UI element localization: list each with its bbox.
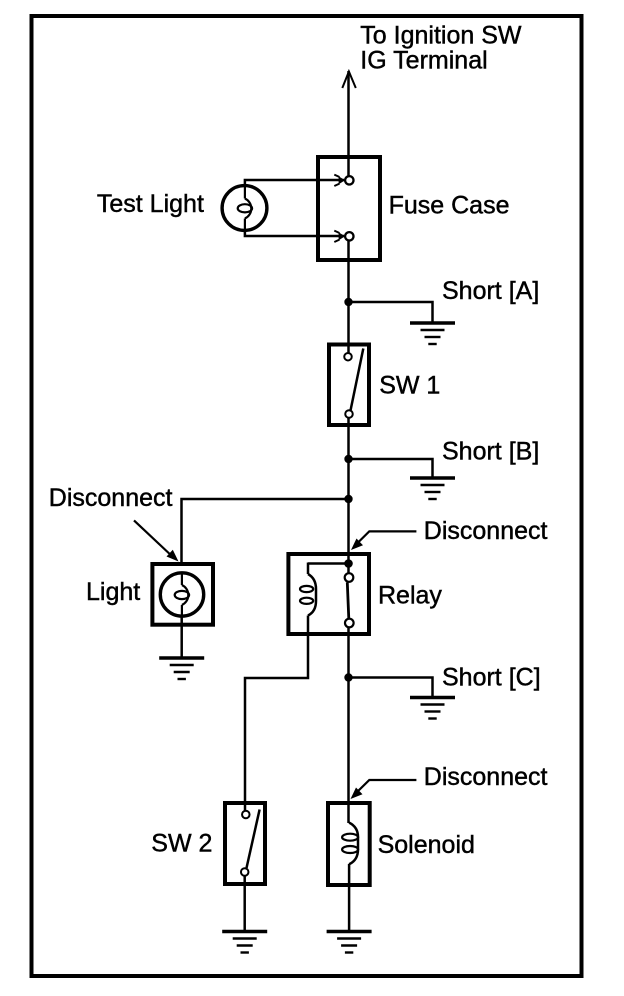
switch SW2 box [225, 803, 265, 884]
svg-text:IG Terminal: IG Terminal [360, 47, 487, 75]
relay K1 box [288, 554, 369, 634]
lamp DS1 Test Light [222, 186, 267, 231]
wire relay junction to coil [308, 562, 349, 565]
arrow Disconnect to Light wire [134, 520, 179, 561]
svg-text:Fuse Case: Fuse Case [389, 192, 510, 220]
svg-text:Short [B]: Short [B] [442, 438, 539, 466]
svg-text:SW 2: SW 2 [151, 830, 212, 858]
relay K1 internal junction dot [344, 559, 353, 568]
ground Solenoid [327, 932, 372, 953]
node C junction dot [344, 673, 352, 681]
wire test light bottom lead to fuse terminal 2 [245, 230, 344, 236]
wire node A to ground A [349, 302, 433, 323]
svg-text:Disconnect: Disconnect [424, 763, 548, 791]
switch SW1 contacts and lever [344, 349, 363, 418]
wire node D to Light [182, 499, 349, 563]
node B junction dot [344, 455, 352, 463]
ground SW2 [222, 932, 267, 953]
relay K1 coil [300, 563, 316, 637]
wire SW1 to node B [347, 418, 350, 459]
node A junction dot [344, 298, 352, 306]
wire from ignition arrow to fuse case [347, 71, 350, 156]
svg-text:Short [C]: Short [C] [442, 664, 541, 692]
svg-text:Light: Light [86, 578, 140, 606]
solenoid L2 coil [342, 823, 358, 865]
lamp L1 bulb [160, 573, 203, 616]
ground C [410, 698, 455, 719]
svg-text:To Ignition SW: To Ignition SW [360, 21, 522, 49]
svg-text:Disconnect: Disconnect [49, 484, 173, 512]
fuse case F1 box [318, 157, 380, 260]
ground A [410, 323, 455, 344]
svg-text:Short [A]: Short [A] [442, 277, 539, 305]
wire relay switch to node C [347, 628, 350, 678]
arrow Disconnect to relay wire [351, 531, 416, 550]
fuse case pin 2 (bottom terminal) [334, 231, 353, 261]
wire node B to ground B [349, 459, 433, 478]
wire node D to relay [347, 499, 350, 564]
fuse case pin 1 (top terminal) [334, 156, 353, 186]
switch SW2 contacts and lever [241, 810, 260, 876]
svg-text:Relay: Relay [378, 581, 442, 609]
relay K1 switch contacts [345, 564, 354, 628]
node D junction dot (branch to Light) [344, 495, 352, 503]
wire relay coil to SW2 [245, 636, 308, 811]
svg-text:SW 1: SW 1 [379, 371, 440, 399]
svg-text:Disconnect: Disconnect [424, 517, 548, 545]
arrow Disconnect to solenoid wire [351, 780, 417, 799]
ground B [410, 478, 455, 499]
svg-text:Solenoid: Solenoid [378, 831, 475, 859]
svg-text:Test Light: Test Light [97, 190, 204, 218]
solenoid L2 box [328, 803, 370, 885]
switch SW1 box [329, 345, 369, 426]
lamp L1 Light box [152, 564, 213, 625]
wire SW2 to ground [243, 876, 246, 932]
wire solenoid to ground [348, 864, 351, 932]
wire node B to node D [347, 459, 350, 499]
ground Light [159, 658, 204, 679]
wire node C to ground C [349, 678, 433, 698]
wire test light top lead to fuse terminal 1 [245, 180, 344, 186]
wire node A to SW1 [347, 302, 350, 353]
wire fuse case to node A [347, 260, 350, 302]
wire Light to ground [180, 616, 183, 658]
arrow to ignition [342, 72, 356, 89]
wire node C to solenoid [347, 678, 350, 824]
node IGN: text To Ignition SW / IG Terminal [360, 21, 522, 74]
